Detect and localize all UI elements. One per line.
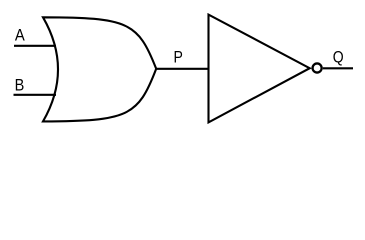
svg-text:Q: Q	[333, 48, 344, 66]
svg-text:A: A	[15, 27, 25, 45]
svg-text:P: P	[174, 49, 183, 67]
svg-text:B: B	[15, 77, 25, 95]
